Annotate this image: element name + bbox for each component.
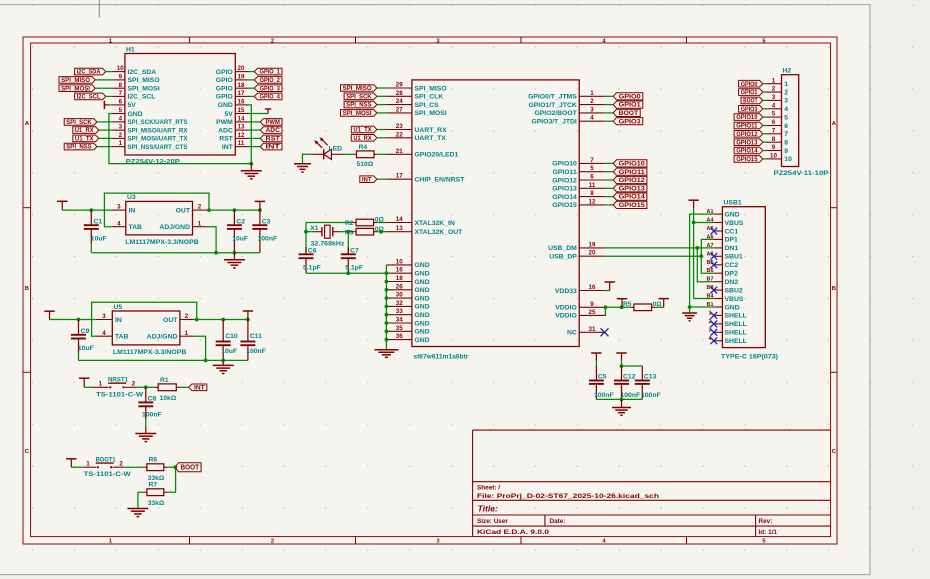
global label GPIO12 (IC right) [605, 176, 647, 184]
svg-text:5V: 5V [128, 102, 137, 109]
power flag NRST [79, 378, 89, 387]
svg-text:18: 18 [396, 275, 403, 282]
svg-text:12: 12 [589, 198, 596, 205]
wire H1 pin16 GND to rail [249, 105, 252, 164]
svg-text:BOOT: BOOT [619, 111, 639, 117]
svg-text:GND: GND [415, 287, 430, 294]
wire USB_DM to USB DN1 [605, 247, 714, 249]
svg-text:7: 7 [784, 131, 788, 138]
svg-text:GPIO15: GPIO15 [619, 203, 646, 209]
svg-text:GND: GND [415, 262, 430, 269]
svg-text:Id: 1/1: Id: 1/1 [759, 529, 778, 536]
global label GPIO11 (H2) [734, 122, 767, 129]
svg-text:10: 10 [770, 153, 777, 160]
svg-text:GPIO_2: GPIO_2 [260, 78, 281, 84]
global label I2C_SDA (H1 left) [75, 68, 112, 75]
svg-text:8: 8 [590, 190, 594, 197]
svg-text:26: 26 [396, 283, 403, 290]
power 5V at H1 pin 15 [249, 109, 272, 114]
svg-text:14: 14 [396, 216, 403, 223]
global label GPIO10 (IC right) [605, 160, 647, 168]
wire R1 to INT label [180, 386, 189, 388]
junction crystal right / C7 [346, 230, 350, 234]
svg-text:GND: GND [415, 337, 430, 344]
svg-text:100nF: 100nF [258, 236, 278, 243]
capacitor C8 100nF [138, 387, 161, 433]
svg-text:10uF: 10uF [221, 348, 237, 355]
svg-text:2: 2 [271, 538, 274, 544]
wire U3 bottom rail [91, 251, 260, 255]
svg-text:TAB: TAB [129, 224, 143, 231]
wire NRST node [137, 385, 155, 389]
svg-text:2: 2 [132, 381, 136, 388]
svg-text:2: 2 [590, 98, 594, 105]
svg-text:GPIO14: GPIO14 [619, 195, 646, 201]
svg-text:SBU2: SBU2 [725, 287, 743, 294]
IC U1 st67w611m1a6btr [386, 80, 604, 361]
svg-text:VDDIO: VDDIO [555, 313, 577, 320]
svg-text:10uF: 10uF [91, 236, 107, 243]
power flag BOOT [66, 459, 76, 467]
wire crystal left branch up to R2 [304, 223, 352, 234]
svg-text:24: 24 [396, 98, 403, 105]
svg-text:6: 6 [772, 119, 776, 126]
svg-text:TAB: TAB [115, 334, 129, 341]
global label SPI_MOSI (H1 left) [59, 85, 112, 92]
svg-text:DN1: DN1 [725, 245, 739, 252]
svg-text:1: 1 [185, 330, 189, 337]
svg-text:PWM: PWM [266, 120, 280, 126]
wire U5 OUT rail [194, 318, 250, 322]
svg-text:10: 10 [117, 65, 124, 72]
svg-text:2: 2 [772, 86, 776, 93]
svg-text:16: 16 [396, 267, 403, 274]
resistor R1 10kOhm [155, 377, 181, 402]
global label SPI_MOSI (IC left) [341, 110, 387, 117]
global label SPI_SCK (IC left) [344, 93, 386, 100]
svg-text:10: 10 [396, 258, 403, 265]
svg-text:GPIO12: GPIO12 [619, 178, 646, 184]
svg-text:NC: NC [567, 330, 577, 337]
global label GPIO3 (IC right) [605, 118, 643, 126]
svg-text:SPI_NSS: SPI_NSS [66, 145, 91, 151]
svg-text:XTAL32K_OUT: XTAL32K_OUT [415, 229, 464, 236]
LED D1 [311, 137, 344, 159]
svg-text:5.1pF: 5.1pF [303, 264, 321, 271]
global label INT [189, 384, 207, 391]
capacitor C7 5.1pF [341, 232, 363, 274]
svg-text:C3: C3 [262, 218, 271, 225]
global label GPIO11 (IC right) [605, 168, 647, 176]
global label SPI_MISO (IC left) [341, 85, 387, 92]
svg-text:GPIO3: GPIO3 [741, 107, 758, 113]
wire U5 input [50, 319, 96, 321]
svg-text:GPIO1: GPIO1 [619, 103, 642, 109]
svg-text:LM1117MPX-3.3/NOPB: LM1117MPX-3.3/NOPB [113, 349, 187, 356]
svg-text:SPI_NSS: SPI_NSS [346, 103, 371, 109]
svg-text:3: 3 [772, 94, 776, 101]
cursor crosshair [98, 0, 100, 18]
svg-text:GND: GND [415, 329, 430, 336]
svg-text:R2: R2 [345, 220, 354, 227]
svg-text:GPIO14: GPIO14 [736, 149, 758, 155]
svg-text:SHELL: SHELL [725, 330, 747, 337]
svg-text:15: 15 [238, 107, 245, 114]
ground below H1 [241, 164, 262, 179]
svg-text:GPIO10: GPIO10 [736, 115, 758, 121]
power flag input U5 [44, 311, 54, 319]
svg-text:1: 1 [99, 381, 103, 388]
capacitor C6 5.1pF [299, 232, 321, 274]
svg-text:DN2: DN2 [725, 279, 739, 286]
svg-text:1: 1 [772, 77, 776, 84]
capacitor C12 100nF [614, 366, 640, 399]
ground R7 [127, 509, 148, 517]
svg-text:I2C_SDA: I2C_SDA [77, 70, 101, 76]
svg-text:B: B [25, 286, 29, 292]
svg-text:R1: R1 [160, 377, 169, 384]
svg-text:VBUS: VBUS [725, 220, 744, 227]
wire LED to R4 [344, 153, 352, 155]
svg-text:U1_TX: U1_TX [353, 128, 371, 134]
IC GND bus [385, 265, 389, 350]
svg-text:16: 16 [589, 284, 596, 291]
wire U3 OUT rail [207, 208, 262, 212]
global label GPIO0 (IC right) [605, 93, 643, 101]
svg-text:35: 35 [396, 325, 403, 332]
svg-text:SPI_MOSI/UART_TX: SPI_MOSI/UART_TX [128, 136, 188, 143]
global label BOOT [175, 463, 201, 472]
svg-text:PZ254V-11-10P: PZ254V-11-10P [774, 170, 830, 177]
svg-text:29: 29 [396, 82, 403, 89]
svg-text:SHELL: SHELL [725, 338, 747, 345]
power flag VDD33 after R5 [659, 299, 669, 308]
global label SPI_NSS (IC left) [344, 101, 386, 108]
svg-text:C7: C7 [350, 248, 359, 255]
capacitor C3 100nF [252, 210, 277, 253]
svg-text:NRST1: NRST1 [108, 377, 128, 384]
svg-text:BOOT1: BOOT1 [96, 457, 116, 464]
svg-text:100nF: 100nF [594, 392, 614, 399]
svg-text:GND: GND [415, 271, 430, 278]
svg-text:GPIO_1: GPIO_1 [260, 70, 281, 76]
svg-text:5: 5 [119, 107, 123, 114]
junction C9 tap [77, 318, 81, 322]
svg-text:GPIO13: GPIO13 [736, 140, 758, 146]
svg-text:USB1: USB1 [724, 200, 742, 207]
svg-text:3: 3 [117, 204, 121, 211]
svg-text:INT: INT [362, 177, 372, 183]
wire R6 to BOOT label [168, 465, 178, 469]
svg-text:1: 1 [86, 461, 90, 468]
svg-text:SPI_MISO: SPI_MISO [343, 86, 372, 92]
svg-text:SPI_SCK: SPI_SCK [346, 94, 372, 100]
svg-text:1: 1 [119, 140, 123, 147]
svg-text:A7: A7 [707, 243, 714, 249]
svg-text:3: 3 [102, 313, 106, 320]
svg-text:Rev:: Rev: [759, 518, 773, 525]
svg-text:GND: GND [128, 111, 143, 118]
svg-text:C10: C10 [225, 333, 238, 340]
svg-text:3: 3 [119, 124, 123, 131]
wire BOOT node to R7 [168, 467, 176, 492]
svg-text:LED: LED [329, 145, 343, 152]
svg-text:X1: X1 [310, 225, 319, 232]
global label BOOT (IC right) [605, 109, 640, 117]
svg-text:18: 18 [238, 82, 245, 89]
svg-text:5: 5 [772, 111, 776, 118]
svg-text:GPIO10: GPIO10 [619, 162, 646, 168]
svg-text:U3: U3 [127, 194, 136, 201]
svg-text:100nF: 100nF [641, 392, 661, 399]
svg-text:20: 20 [589, 250, 596, 257]
svg-text:Size: User: Size: User [477, 518, 508, 525]
svg-text:SPI_MOSI: SPI_MOSI [128, 86, 160, 93]
svg-text:GPIO15: GPIO15 [552, 202, 577, 209]
global label GPIO10 (H2) [734, 114, 767, 121]
svg-text:GPIO_4: GPIO_4 [260, 95, 281, 101]
svg-text:100nF: 100nF [621, 392, 641, 399]
svg-text:TYPE-C 16P(073): TYPE-C 16P(073) [721, 354, 778, 361]
svg-text:SPI_MOSI: SPI_MOSI [61, 86, 90, 92]
svg-text:C5: C5 [598, 374, 607, 381]
global label GPIO14 (H2) [734, 147, 767, 154]
svg-text:GPIO11: GPIO11 [619, 170, 646, 176]
svg-text:PZ254V-12-20P: PZ254V-12-20P [126, 158, 181, 165]
svg-text:16: 16 [238, 99, 245, 106]
crystal X1 32.768kHz [306, 225, 348, 247]
wire U3 input [62, 209, 112, 211]
svg-text:DP1: DP1 [725, 237, 738, 244]
svg-text:17: 17 [238, 90, 245, 97]
power flag VDDIO [617, 299, 627, 308]
svg-text:GPIO0/T_JTMS: GPIO0/T_JTMS [528, 94, 577, 101]
wire to NRST1 [84, 386, 92, 388]
svg-text:GPIO14: GPIO14 [552, 194, 577, 201]
svg-text:U1_TX: U1_TX [75, 137, 94, 143]
svg-text:GND: GND [415, 279, 430, 286]
svg-text:C6: C6 [308, 248, 317, 255]
svg-text:GPIO: GPIO [216, 86, 233, 93]
regulator U5 LM1117MPX-3.3/NOPB [96, 304, 194, 356]
ground LED [294, 154, 311, 172]
svg-text:INT: INT [266, 145, 281, 151]
svg-text:3: 3 [784, 98, 788, 105]
capacitor C10 10uF [216, 320, 238, 361]
global label ADC (H1 right) [249, 127, 283, 134]
wire GND rail USB [688, 214, 714, 313]
global label GPIO_3 (H1 right) [249, 85, 283, 92]
wire R4 to IC pin21 [378, 153, 387, 155]
svg-text:1: 1 [198, 220, 202, 227]
frame zone labels [25, 38, 837, 544]
svg-text:13: 13 [238, 124, 245, 131]
svg-text:10kΩ: 10kΩ [160, 395, 177, 402]
capacitor C5 100nF [589, 366, 614, 400]
svg-text:VBUS: VBUS [725, 296, 744, 303]
svg-text:SPI_MISO: SPI_MISO [128, 77, 160, 84]
wire USB_DP to DP rail [605, 255, 702, 257]
global label GPIO12 (H2) [734, 131, 767, 138]
svg-text:ADJ/GND: ADJ/GND [159, 224, 190, 231]
svg-text:3: 3 [590, 106, 594, 113]
svg-text:22: 22 [396, 131, 403, 138]
svg-text:34: 34 [396, 317, 403, 324]
svg-text:st67w611m1a6btr: st67w611m1a6btr [413, 354, 468, 361]
svg-text:12: 12 [238, 132, 245, 139]
global label BOOT (H2) [741, 97, 767, 104]
ground IC [374, 350, 398, 358]
svg-text:DP2: DP2 [725, 271, 738, 278]
svg-text:KiCad E.D.A. 9.0.0: KiCad E.D.A. 9.0.0 [477, 529, 550, 536]
svg-text:C12: C12 [623, 374, 636, 381]
global label SPI_NSS (H1 left) [64, 143, 112, 150]
resistor R6 33kOhm [143, 457, 167, 483]
svg-text:C1: C1 [94, 218, 103, 225]
ground U3 [224, 253, 245, 268]
svg-text:5: 5 [590, 165, 594, 172]
global label GPIO15 (IC right) [605, 201, 647, 209]
svg-text:USB_DM: USB_DM [548, 245, 577, 252]
svg-text:GND: GND [218, 102, 233, 109]
svg-text:2: 2 [784, 89, 788, 96]
svg-text:IN: IN [129, 207, 136, 214]
wire VDDIO node [604, 305, 631, 309]
wire U5 ADJ/GND down [194, 336, 206, 360]
svg-text:1: 1 [590, 90, 594, 97]
svg-text:5.1pF: 5.1pF [345, 264, 363, 271]
regulator U3 LM1117MPX-3.3/NOPB [112, 194, 207, 246]
svg-text:CC2: CC2 [725, 262, 739, 269]
ground USB [682, 313, 697, 321]
svg-text:GPIO15: GPIO15 [736, 157, 758, 163]
junction H1 ground node [249, 162, 253, 166]
svg-text:INT: INT [194, 385, 205, 391]
svg-text:GPIO0: GPIO0 [619, 94, 642, 100]
svg-text:11: 11 [589, 182, 596, 189]
svg-text:File: ProPrj_D-02-ST67_2025-10: File: ProPrj_D-02-ST67_2025-10-26.kicad_… [477, 493, 659, 500]
svg-text:Sheet: /: Sheet: / [477, 484, 500, 491]
svg-text:SBU1: SBU1 [725, 254, 743, 261]
svg-text:2: 2 [271, 38, 274, 44]
power flag VDD33 pin16 [605, 282, 615, 291]
svg-text:GND: GND [415, 320, 430, 327]
global label SPI_MISO (H1 left) [59, 77, 112, 84]
svg-text:VDD33: VDD33 [555, 288, 577, 295]
svg-text:GND: GND [415, 312, 430, 319]
wire DN1-DN2 rail [695, 246, 714, 282]
svg-text:33: 33 [396, 308, 403, 315]
svg-text:C8: C8 [148, 396, 157, 403]
svg-text:GPIO11: GPIO11 [553, 169, 577, 176]
global label GPIO_4 (H1 right) [249, 93, 283, 100]
svg-text:25: 25 [589, 309, 596, 316]
svg-text:H2: H2 [783, 68, 792, 75]
svg-text:ADC: ADC [266, 128, 281, 134]
power flag U5 output [243, 311, 253, 320]
svg-text:R3: R3 [345, 229, 354, 236]
global label U1_RX (IC left) [351, 135, 386, 142]
global label INT (H1 right) [249, 143, 283, 150]
svg-text:SPI_MISO: SPI_MISO [415, 85, 447, 92]
switch NRST1 TS-1101-C-W [92, 377, 144, 399]
svg-text:19: 19 [238, 74, 245, 81]
svg-text:GPIO3/T_JTDI: GPIO3/T_JTDI [531, 119, 576, 126]
global label GPIO0 (H2) [739, 80, 767, 87]
svg-text:2: 2 [119, 461, 123, 468]
global label GPIO_2 (H1 right) [249, 77, 283, 84]
sheet border frame [23, 37, 837, 544]
svg-text:GPIO: GPIO [216, 94, 233, 101]
global label PWM (H1 right) [249, 119, 283, 126]
svg-text:GPIO: GPIO [216, 77, 233, 84]
svg-text:TS-1101-C-W: TS-1101-C-W [84, 471, 132, 478]
wire VBUS rail [692, 208, 714, 299]
svg-text:8: 8 [784, 140, 788, 147]
wire R7 to ground [138, 492, 143, 508]
wire to BOOT1 [71, 466, 83, 468]
power flag VBUS [688, 200, 698, 208]
svg-text:C13: C13 [644, 374, 657, 381]
svg-text:SHELL: SHELL [725, 313, 747, 320]
svg-text:GPIO_3: GPIO_3 [260, 86, 281, 92]
svg-text:H1: H1 [126, 46, 135, 53]
svg-text:U1_RX: U1_RX [75, 128, 94, 134]
svg-text:31: 31 [589, 326, 596, 333]
svg-text:2: 2 [185, 313, 189, 320]
svg-text:13: 13 [396, 225, 403, 232]
svg-text:GPIO0: GPIO0 [741, 82, 758, 88]
svg-text:OUT: OUT [163, 317, 178, 324]
ground C12 [612, 399, 631, 415]
svg-text:Date:: Date: [550, 518, 566, 525]
svg-text:Title:: Title: [478, 504, 499, 514]
svg-text:SHELL: SHELL [725, 321, 747, 328]
svg-text:10: 10 [784, 156, 792, 163]
svg-text:ADC: ADC [218, 127, 233, 134]
svg-text:SPI_CLK: SPI_CLK [415, 94, 444, 101]
svg-text:RST: RST [266, 137, 281, 143]
svg-text:ADJ/GND: ADJ/GND [147, 334, 178, 341]
svg-text:XTAL32K_IN: XTAL32K_IN [415, 220, 455, 227]
title block [473, 430, 831, 536]
svg-text:GPIO20/LED1: GPIO20/LED1 [415, 152, 459, 159]
svg-text:4: 4 [784, 106, 788, 113]
svg-text:28: 28 [396, 90, 403, 97]
capacitor C9 10uF [71, 320, 94, 361]
svg-text:USB_DP: USB_DP [549, 254, 577, 261]
svg-text:4: 4 [590, 115, 594, 122]
svg-text:4: 4 [119, 116, 123, 123]
svg-text:6: 6 [784, 123, 788, 130]
svg-text:BOOT: BOOT [743, 99, 758, 105]
svg-text:GPIO12: GPIO12 [736, 132, 758, 138]
resistor R4 510Ohm [353, 144, 378, 168]
global label GPIO3 (H2) [739, 106, 767, 113]
capacitor C13 100nF [635, 366, 661, 399]
svg-text:B: B [832, 286, 836, 292]
junction C1 tap [89, 208, 93, 212]
junction C12 top [620, 364, 643, 368]
svg-text:9: 9 [772, 144, 776, 151]
svg-text:R7: R7 [149, 482, 158, 489]
svg-text:U1_RX: U1_RX [353, 136, 371, 142]
svg-text:SPI_MISO: SPI_MISO [61, 78, 90, 84]
svg-text:OUT: OUT [176, 207, 191, 214]
wire VDDIO pin25 [604, 307, 607, 315]
svg-text:GND: GND [725, 304, 740, 311]
svg-text:4: 4 [102, 330, 106, 337]
